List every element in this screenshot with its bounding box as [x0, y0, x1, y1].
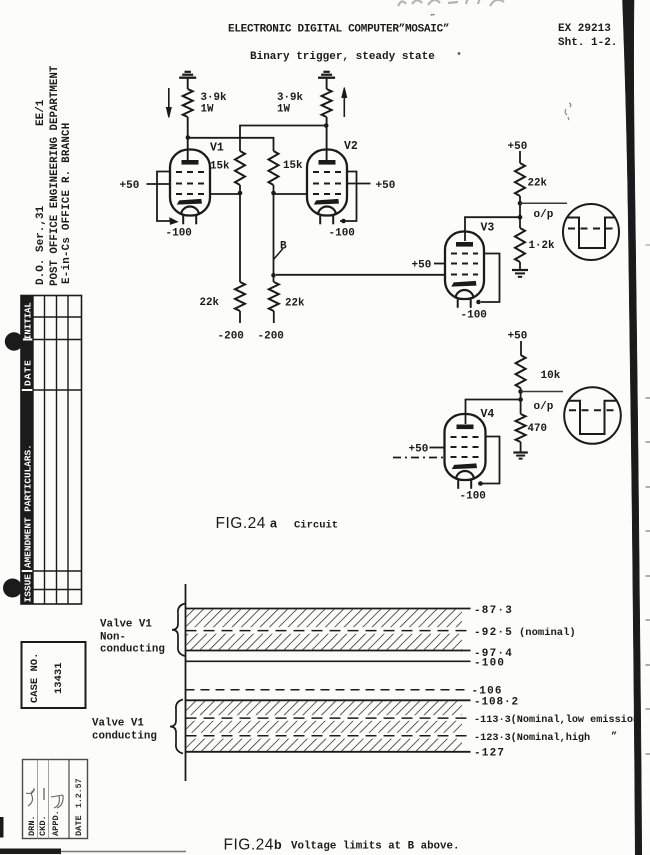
svg-text:1·2k: 1·2k [529, 240, 555, 252]
svg-text:Valve V1: Valve V1 [100, 619, 152, 631]
svg-text:+50: +50 [508, 331, 528, 343]
svg-text:+50: +50 [409, 444, 429, 456]
svg-text:Valve V1: Valve V1 [92, 718, 144, 730]
svg-text:FIG.24: FIG.24 [216, 515, 266, 532]
svg-text:+50: +50 [508, 141, 528, 153]
svg-text:-123·3(Nominal,high: -123·3(Nominal,high [474, 732, 590, 744]
svg-text:-127: -127 [474, 748, 505, 760]
svg-text:CASE NO.: CASE NO. [29, 653, 41, 703]
svg-text:-113·3(Nominal,low emission: -113·3(Nominal,low emission [474, 714, 639, 726]
svg-text:V4: V4 [481, 408, 495, 421]
svg-text:3·9k: 3·9k [201, 92, 227, 104]
svg-text:V3: V3 [481, 222, 495, 235]
svg-text:a: a [270, 517, 278, 531]
svg-text:-100: -100 [461, 310, 487, 322]
svg-text:+50: +50 [412, 260, 432, 272]
svg-text:-100: -100 [329, 228, 355, 240]
svg-text:-100: -100 [166, 228, 192, 240]
svg-text:AMENDMENT PARTICULARS.: AMENDMENT PARTICULARS. [23, 444, 34, 568]
svg-text:D.O. Ser.,31: D.O. Ser.,31 [35, 205, 47, 285]
svg-text:B: B [280, 241, 287, 253]
svg-text:10k: 10k [541, 370, 561, 382]
svg-text:POST OFFICE ENGINEERING DEPART: POST OFFICE ENGINEERING DEPARTMENT [49, 65, 61, 286]
svg-text:FIG.24: FIG.24 [224, 837, 274, 854]
svg-text:Voltage limits at B above.: Voltage limits at B above. [291, 841, 459, 853]
svg-text:DRN.: DRN. [27, 815, 37, 836]
svg-text:EX 29213: EX 29213 [558, 23, 611, 35]
svg-text:15k: 15k [210, 161, 230, 173]
svg-text:V2: V2 [344, 140, 358, 153]
svg-text:b: b [274, 838, 282, 852]
svg-text:-108·2: -108·2 [474, 697, 519, 709]
svg-text:o/p: o/p [534, 401, 554, 413]
svg-text:-100: -100 [474, 658, 505, 670]
svg-text:+50: +50 [120, 180, 140, 192]
svg-text:1W: 1W [201, 104, 214, 116]
svg-text:V1: V1 [210, 142, 224, 155]
svg-text:DATE: DATE [23, 359, 34, 386]
svg-text:-87·3: -87·3 [474, 605, 513, 617]
svg-text:ISSUE: ISSUE [23, 574, 34, 603]
svg-text:Binary trigger, steady state: Binary trigger, steady state [250, 51, 435, 63]
svg-text:o/p: o/p [534, 209, 554, 221]
svg-text:-92·5: -92·5 [474, 627, 513, 639]
svg-text:13431: 13431 [53, 662, 65, 694]
svg-text:-200: -200 [258, 331, 284, 343]
svg-text:22k: 22k [200, 297, 220, 309]
svg-text:3·9k: 3·9k [277, 92, 303, 104]
svg-text:INITIAL: INITIAL [24, 302, 34, 340]
svg-text:Circuit: Circuit [294, 520, 338, 532]
svg-text:22k: 22k [285, 298, 305, 310]
svg-text:Non-: Non- [100, 632, 126, 644]
svg-text:APPD.: APPD. [51, 810, 61, 836]
svg-text:+50: +50 [376, 180, 396, 192]
svg-text:”: ” [611, 731, 617, 743]
svg-text:-100: -100 [460, 491, 486, 503]
svg-text:1.2.57: 1.2.57 [75, 778, 84, 808]
svg-text:CKD.: CKD. [38, 815, 48, 836]
svg-text:ELECTRONIC DIGITAL COMPUTER”MO: ELECTRONIC DIGITAL COMPUTER”MOSAIC” [228, 24, 449, 36]
svg-text:conducting: conducting [92, 731, 157, 743]
svg-text:(nominal): (nominal) [519, 627, 576, 639]
svg-text:conducting: conducting [100, 644, 165, 656]
svg-text:DATE: DATE [74, 815, 84, 836]
svg-text:˝: ˝ [431, 14, 437, 26]
svg-text:15k: 15k [283, 160, 303, 172]
svg-text:-200: -200 [218, 331, 244, 343]
svg-text:1W: 1W [277, 104, 290, 116]
svg-text:EE/1: EE/1 [35, 99, 47, 126]
svg-text:22k: 22k [528, 178, 548, 190]
svg-text:470: 470 [528, 423, 547, 435]
svg-text:Sht. 1-2.: Sht. 1-2. [558, 37, 617, 49]
svg-text:E-in-Cs OFFICE R. BRANCH: E-in-Cs OFFICE R. BRANCH [61, 122, 73, 284]
